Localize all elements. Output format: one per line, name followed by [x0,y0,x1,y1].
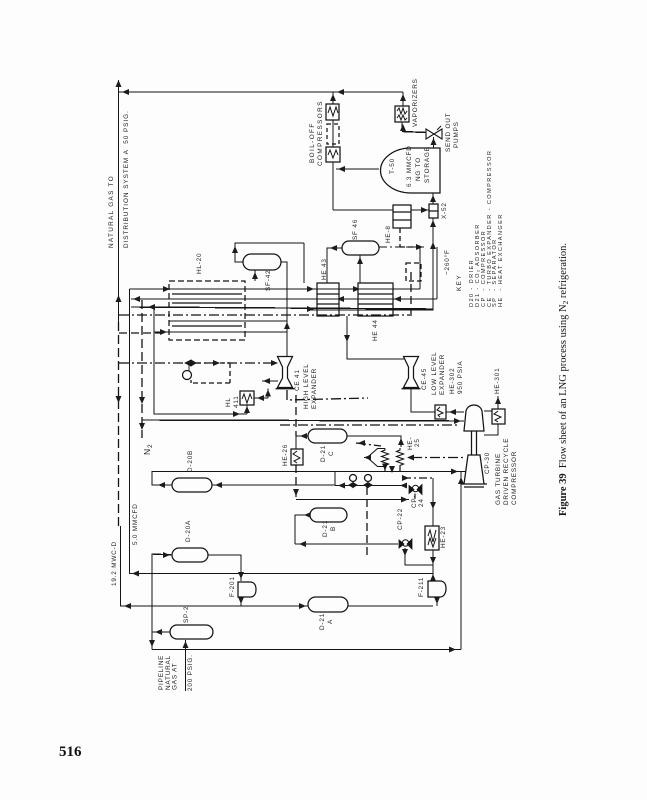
arrow: dash into CE-41 right [271,360,278,366]
boil-off compressor 1 [326,104,339,120]
wire: HL-411 bottom riser [246,405,248,414]
arrow: CE-41 outlet riser up [265,390,271,397]
wire: x420 from HE-8 dash to y289 [419,247,421,289]
boil-off compressor spare (dashed) [327,124,339,144]
arrow: CE-41 stub left [263,378,270,384]
svg-text:Figure 39 Flow sheet of an LN: Figure 39 Flow sheet of an LNG process u… [558,243,570,516]
storage tank T-50 [381,148,441,193]
HL-20 internal tubes [172,294,242,326]
wire: SF-46 right run [379,246,424,248]
arrow: D-21C right riser up [398,438,404,445]
arrow: into X-52 up [430,220,436,227]
expander CE-45 (low level) [402,357,421,389]
svg-text:HE 43: HE 43 [321,258,328,280]
wire: CE-41 outlet stub left [262,380,278,382]
wire: CE-41 inlet riser [286,321,288,356]
arrow: N2 line down 1 [139,397,145,404]
wire: D-20A right to F-201 [208,555,241,581]
svg-text:EXPANDER: EXPANDER [439,354,446,395]
heat exchanger HL-20 (cold box) [169,281,245,340]
compressor CP-24 [409,485,422,500]
wire: SF-42 right down to CE-41 [281,262,287,356]
arrow: F-201 feed down [238,572,244,579]
svg-text:516: 516 [59,744,82,760]
heat exchanger HE-8 [393,205,411,228]
arrow: coil right feed left [407,455,414,461]
svg-text:HL: HL [225,397,232,407]
svg-text:KEY: KEY [456,274,463,291]
wire: SF-42 feed from HL-20 [254,270,256,281]
arrow: y606 left end [124,603,131,609]
compressor CP-22 [399,539,412,549]
svg-text:−260°F: −260°F [443,249,451,275]
wire: F-211 bottom [436,597,438,606]
arrow: SP-2 inlet up [183,641,189,648]
svg-text:COMPRESSOR: COMPRESSOR [511,451,518,505]
arrow: into tank bottom up [430,195,436,202]
svg-text:EXPANDER: EXPANDER [311,368,318,409]
wire: tank feed through X-52 [308,193,433,310]
wire: pump suction from tank [433,137,435,149]
svg-text:PIPELINE: PIPELINE [158,655,165,690]
wire: HL-20 top tube line y289 [130,288,421,290]
svg-text:PUMPS: PUMPS [453,121,460,148]
separator SP-2 [170,625,213,639]
arrow: HE-301 riser up [495,397,501,404]
svg-text:VAPORIZERS: VAPORIZERS [412,78,419,127]
wire: tube line y299 [131,298,437,300]
wire: CP-22 discharge [405,548,433,565]
wire: D-21B left loop [295,515,310,544]
svg-text:HE-26: HE-26 [282,444,289,466]
heat exchanger HE-43 [317,283,339,316]
wire: product gas header to distribution, top [119,91,404,93]
adsorber D-21B [310,508,347,522]
arrow: right coil bottom down [389,466,395,473]
svg-text:D-21: D-21 [322,520,329,537]
svg-text:HE-8: HE-8 [385,225,392,243]
wire: inner loop left edge [154,307,247,414]
svg-text:CP-: CP- [411,495,418,508]
wire: y544 line to CP-22 [295,543,398,545]
wire: SP-2 inlet riser [185,640,187,691]
wire: CP-24 outlet to HE-23 [432,478,434,526]
arrow: x433 down below HE-23 [430,557,436,564]
arrow: riser up at y298 [116,295,122,302]
svg-text:CE-45: CE-45 [421,368,428,390]
wire: N2 loop return to compressor suction [142,420,464,421]
svg-text:HE-301: HE-301 [494,368,501,394]
svg-text:950 PSIA: 950 PSIA [457,361,464,394]
drier D-20A [172,548,208,562]
wire: CP-30 discharge to HE-301 [484,409,498,411]
svg-text:DISTRIBUTION SYSTEM A 50 PSIG: DISTRIBUTION SYSTEM A 50 PSIG. [123,110,130,248]
wire: D-20B left riser [152,471,172,485]
arrow: pump suction up [431,138,437,145]
svg-text:GAS TURBINE: GAS TURBINE [495,453,502,505]
arrow: SP-2 overhead left [155,629,162,635]
svg-text:GAS AT: GAS AT [172,663,179,690]
wire: dash vertical x367 [366,487,368,558]
svg-text:X-52: X-52 [441,202,448,219]
arrow: SF-46 run right [416,244,423,250]
wire: CE-41 outlet riser [267,389,269,399]
wire: HE-302 to CP-30 suction [446,411,464,413]
arrow: into D-21A right [299,603,306,609]
svg-text:HE-: HE- [407,437,414,450]
vessel F-201 [238,582,256,597]
arrow: suction line right end [454,418,461,424]
control valve with actuator (cold box) [183,360,197,380]
arrow: into D-20B right [215,482,222,488]
HE-8 dividers [393,212,411,220]
arrow: SF-46 feed up [357,257,363,264]
arrow: y332 right [160,329,167,335]
wire: left product riser lower solid [121,526,434,606]
arrow: boil-off riser up top [330,94,336,101]
wire: JT valves line y485 [335,485,407,487]
arrow: top line flow left [122,89,129,95]
letdown valve X-52 [429,204,438,218]
wire: dash stub y443 [356,443,381,446]
arrow: y485 left at CP-24 [400,483,407,489]
wire: SF-46 feed riser [359,255,361,283]
svg-text:F-201: F-201 [229,576,236,597]
svg-text:HIGH LEVEL: HIGH LEVEL [303,363,310,409]
separator SF-42 [243,254,281,270]
arrow: x152 down to pipeline [149,640,155,647]
arrow: D-21B left [304,512,311,518]
arrow: CE-41 riser up [284,322,290,329]
arrow: dash stub left [358,440,365,446]
arrow: HE-25 funnel left [364,455,371,461]
wire: HE-8 left line [333,209,393,211]
arrow: x461 riser up [458,477,464,484]
arrow: y289 right at HE-43 [307,286,314,292]
svg-text:SF-42: SF-42 [265,270,272,291]
boil-off compressor 2 [326,147,340,162]
arrow: HL-411 outlet left [257,395,264,401]
wire: x437 down from SF-46 run [436,247,438,299]
JT valve 1 [349,475,357,488]
heat exchanger HL-411 [240,391,254,405]
CP-30 shaft [472,431,477,455]
wire: HE-301 top riser [497,396,499,409]
arrow: into D-20A right [163,552,170,558]
arrow: y299 left end [133,296,140,302]
arrow: x433 up toward X-52 [430,242,436,249]
expander CE-41 (high level) [276,357,295,389]
wire: SP-2 overhead line [152,631,170,633]
wire: riser x304 to HE-43 [303,243,305,283]
svg-text:HE 44: HE 44 [372,319,379,341]
vaporizer [395,106,409,122]
wire: CE-41 outlet to HL-411 [254,397,268,399]
arrow: SF-42 feed up [252,272,258,279]
arrow: top line flow left mid [337,89,344,95]
wire: HE-26 dash continue [295,395,297,436]
heat exchanger HE-25 coils [364,448,404,472]
arrow: valve line right [213,360,220,366]
wire: recycle suction riser x461 [460,472,462,650]
arrow: y472 down arrow at HE-25 [382,464,388,471]
svg-text:CP-30: CP-30 [484,452,491,474]
wire: line B cold return left loop [130,289,434,574]
adsorber D-21C [308,429,347,443]
arrow: tank boil-off left [338,166,345,172]
wire: dash-dot from CE-41 bottom [287,390,368,400]
svg-text:N2: N2 [142,444,154,455]
svg-text:CE 41: CE 41 [294,369,301,391]
svg-text:D-20A: D-20A [185,520,192,542]
arrow: pump to vaporizer up [400,124,406,131]
svg-text:25: 25 [414,438,421,447]
svg-text:STORAGE: STORAGE [424,146,431,183]
wire: line through D-20B upper to turbine suction [152,471,466,473]
svg-text:A: A [327,619,334,624]
heat exchanger HE-26 [291,449,303,465]
wire: bottom pipeline main [152,649,461,651]
JT valve 2 [364,475,372,488]
svg-text:NATURAL GAS TO: NATURAL GAS TO [108,175,115,248]
wire: HE-8 dashed bottom loop [400,228,420,247]
wire: dash vertical x411 [410,272,412,316]
svg-text:C: C [328,451,335,456]
vessel F-211 [428,581,446,597]
svg-text:24: 24 [418,498,425,507]
svg-text:SEND OUT: SEND OUT [445,113,452,152]
wire: dashed box above HE-44 [406,263,421,281]
arrow: y544 left [299,541,306,547]
arrow: into BO compressor 2 [330,146,336,153]
wire: D-21C right to HE-25 [347,436,401,447]
svg-text:HE-23: HE-23 [440,526,447,548]
heat exchanger HE-44 [358,283,393,316]
arrow: y299 left at HE-44 [394,296,401,302]
wire: boil-off compressor riser [332,92,334,210]
svg-text:D-20B: D-20B [187,450,194,472]
svg-text:F-211: F-211 [418,577,425,597]
arrow: vaporizer up into top line [400,94,406,101]
arrow: D-21C left [300,433,307,439]
wire: tube line y308 [131,307,433,309]
arrow: HE-8 to X-52 right [421,207,428,213]
arrow: SF-46 left [330,245,337,251]
arrow: CP-22 down [402,549,408,556]
HE-44 tubes [358,294,393,304]
wire: HE-23 bottom to junction [432,550,434,581]
wire: SF-46 left line [327,248,342,283]
svg-text:BOIL-OFF: BOIL-OFF [309,122,316,163]
wire: F-201 bottom riser [240,597,242,606]
arrow: x433 down above HE-23 [430,502,436,509]
arrow: y307 left end [148,304,155,310]
arrow: into HE-302 left [449,409,456,415]
heat exchanger HE-302 [435,405,446,419]
wire: vaporizer bottom to pump [402,122,426,133]
wire: HE-8 right to X-52 [411,209,429,211]
arrow: y289 right at HE-44 [353,286,360,292]
wire: dash signal to turbine y458 [412,457,466,459]
arrow: y308 right into HE-43 [307,306,314,312]
svg-text:5.0 MMCFD: 5.0 MMCFD [132,503,139,545]
gas turbine driver [461,455,487,487]
arrow: y414 right [233,411,240,417]
arrow: CP-24 dash right [402,475,409,481]
arrow: y485 left [338,483,345,489]
svg-text:411: 411 [233,395,240,408]
HE-43 tubes [317,294,339,304]
svg-text:COMPRESSORS: COMPRESSORS [317,100,324,166]
arrow: cold box boundary down [116,396,122,403]
wire: D-20A feed riser [152,554,172,650]
svg-text:DRIVEN RECYCLE: DRIVEN RECYCLE [503,438,510,505]
arrow: y289 right at HL-20 [163,286,170,292]
wire: HE-26 outlet to CP-24 line [296,499,409,501]
wire: N2 makeup dashed line [141,300,143,438]
svg-text:HE - HEAT EXCHANGER: HE - HEAT EXCHANGER [498,213,504,307]
arrow: into D-20B left [158,482,165,488]
wire: dashed cold box boundary left [118,322,120,528]
wire: dash branch y333 [119,332,160,334]
arrow: CE-45 feed down [344,335,350,342]
arrow: bottom line right [449,647,456,653]
arrow: y573 left end [132,571,139,577]
wire: vaporizer riser top [402,92,404,106]
svg-text:19.2 MWC-D: 19.2 MWC-D [111,541,118,586]
arrow: exit to distribution (up) [116,80,122,87]
separator SF-46 [342,241,379,255]
heat exchanger HE-301 [492,409,505,424]
wire: valve actuator dashed loop [191,363,230,383]
svg-text:NG TO: NG TO [415,157,422,181]
arrow: SF-42 riser up [232,246,238,253]
arrow: N2 line down 2 [139,423,145,430]
wire: D-20B right line [212,472,335,486]
svg-text:SF 46: SF 46 [352,219,359,240]
arrow: F-201 out down [238,597,244,604]
arrow: x433 down below F-211 [434,597,440,604]
wire: HE-301 outlet loop [484,424,498,435]
drier D-20B [172,478,212,492]
arrow: y472 into turbine [451,469,458,475]
wire: CE-45 outlet loop [411,389,435,412]
arrow: y299 left at HE-43 [337,296,344,302]
wire: tube line y332 [154,331,287,333]
compressor CP-30 (centrifugal body) [464,405,484,431]
arrow: HL-411 bottom up [244,406,250,413]
svg-text:D-21: D-21 [320,445,327,462]
svg-text:HE-302: HE-302 [449,368,456,394]
svg-text:SP-2: SP-2 [183,606,190,623]
wire: left product riser [118,80,120,322]
wire: HE-4x bottom to CE-45 feed [347,316,404,359]
arrow: CP-24 line right [401,497,408,503]
wire: dash boundary y425 [280,424,460,426]
send-out pump [426,126,442,139]
wire: dash boundary y363 [119,362,276,364]
svg-text:200 PSIG.: 200 PSIG. [187,654,194,691]
wire: CP-24 dash-dot discharge [403,477,433,479]
arrow: HE-26 outlet down [293,489,299,496]
arrow: x433 up above F-211 [430,574,436,581]
wire: D-21C left to HE-26 [296,436,308,449]
heat exchanger HE-23 [425,526,439,550]
svg-text:LOW LEVEL: LOW LEVEL [431,352,438,395]
adsorber D-21A [308,597,348,612]
wire: SF-42 left riser [235,243,304,262]
svg-text:T-50: T-50 [389,158,396,174]
svg-text:D-21: D-21 [319,613,326,630]
wire: tank boil-off line [336,168,379,170]
svg-text:B: B [330,526,337,531]
wire: tube line y321 [169,320,287,322]
wire: dash HE-26 outlet [295,465,297,498]
wire: dash-dot boundary y315 [119,314,410,316]
svg-text:HL-20: HL-20 [196,253,203,274]
svg-text:6.3 MMCFD: 6.3 MMCFD [406,145,413,187]
svg-text:CP-22: CP-22 [397,508,404,530]
